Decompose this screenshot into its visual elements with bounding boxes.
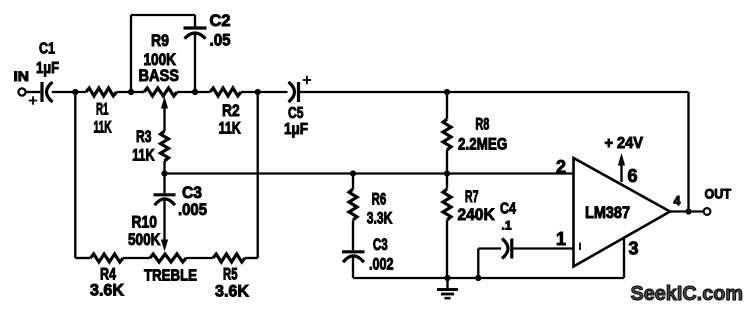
svg-text:C3: C3 [373, 235, 388, 254]
svg-text:BASS: BASS [139, 66, 180, 85]
svg-text:3.3K: 3.3K [367, 209, 393, 228]
svg-text:11K: 11K [132, 146, 155, 165]
svg-text:4: 4 [674, 194, 681, 208]
svg-text:500K: 500K [128, 230, 161, 249]
svg-text:R6: R6 [372, 190, 387, 209]
svg-text:R9: R9 [151, 31, 169, 50]
svg-text:.05: .05 [210, 31, 231, 50]
svg-text:R8: R8 [475, 115, 489, 134]
svg-text:TREBLE: TREBLE [144, 268, 197, 285]
svg-text:1: 1 [556, 229, 566, 249]
svg-text:2: 2 [556, 157, 566, 177]
svg-text:R2: R2 [222, 101, 240, 120]
svg-text:6: 6 [628, 166, 638, 186]
svg-text:C4: C4 [500, 201, 516, 218]
svg-text:SeekIC.com: SeekIC.com [631, 283, 744, 305]
svg-text:R7: R7 [465, 187, 479, 206]
svg-text:240K: 240K [458, 205, 496, 224]
svg-text:.002: .002 [369, 255, 394, 274]
svg-text:C1: C1 [39, 41, 55, 58]
svg-text:C5: C5 [288, 105, 304, 122]
svg-text:OUT: OUT [705, 186, 732, 202]
svg-text:11K: 11K [219, 119, 242, 138]
svg-text:C2: C2 [210, 11, 231, 30]
svg-text:11K: 11K [94, 118, 113, 137]
svg-text:R1: R1 [96, 100, 109, 119]
svg-text:IN: IN [14, 68, 30, 84]
svg-text:R10: R10 [132, 213, 158, 232]
svg-text:2.2MEG: 2.2MEG [458, 135, 507, 154]
svg-text:.005: .005 [178, 200, 207, 219]
svg-text:R3: R3 [136, 127, 151, 146]
svg-text:+ 24V: + 24V [605, 135, 644, 152]
svg-text:1μF: 1μF [36, 60, 59, 77]
svg-text:.1: .1 [502, 219, 512, 233]
svg-text:3.6K: 3.6K [215, 282, 250, 301]
svg-text:3.6K: 3.6K [90, 281, 125, 300]
svg-text:LM387: LM387 [585, 204, 630, 222]
svg-text:3: 3 [629, 239, 639, 259]
svg-text:1μF: 1μF [284, 121, 308, 138]
